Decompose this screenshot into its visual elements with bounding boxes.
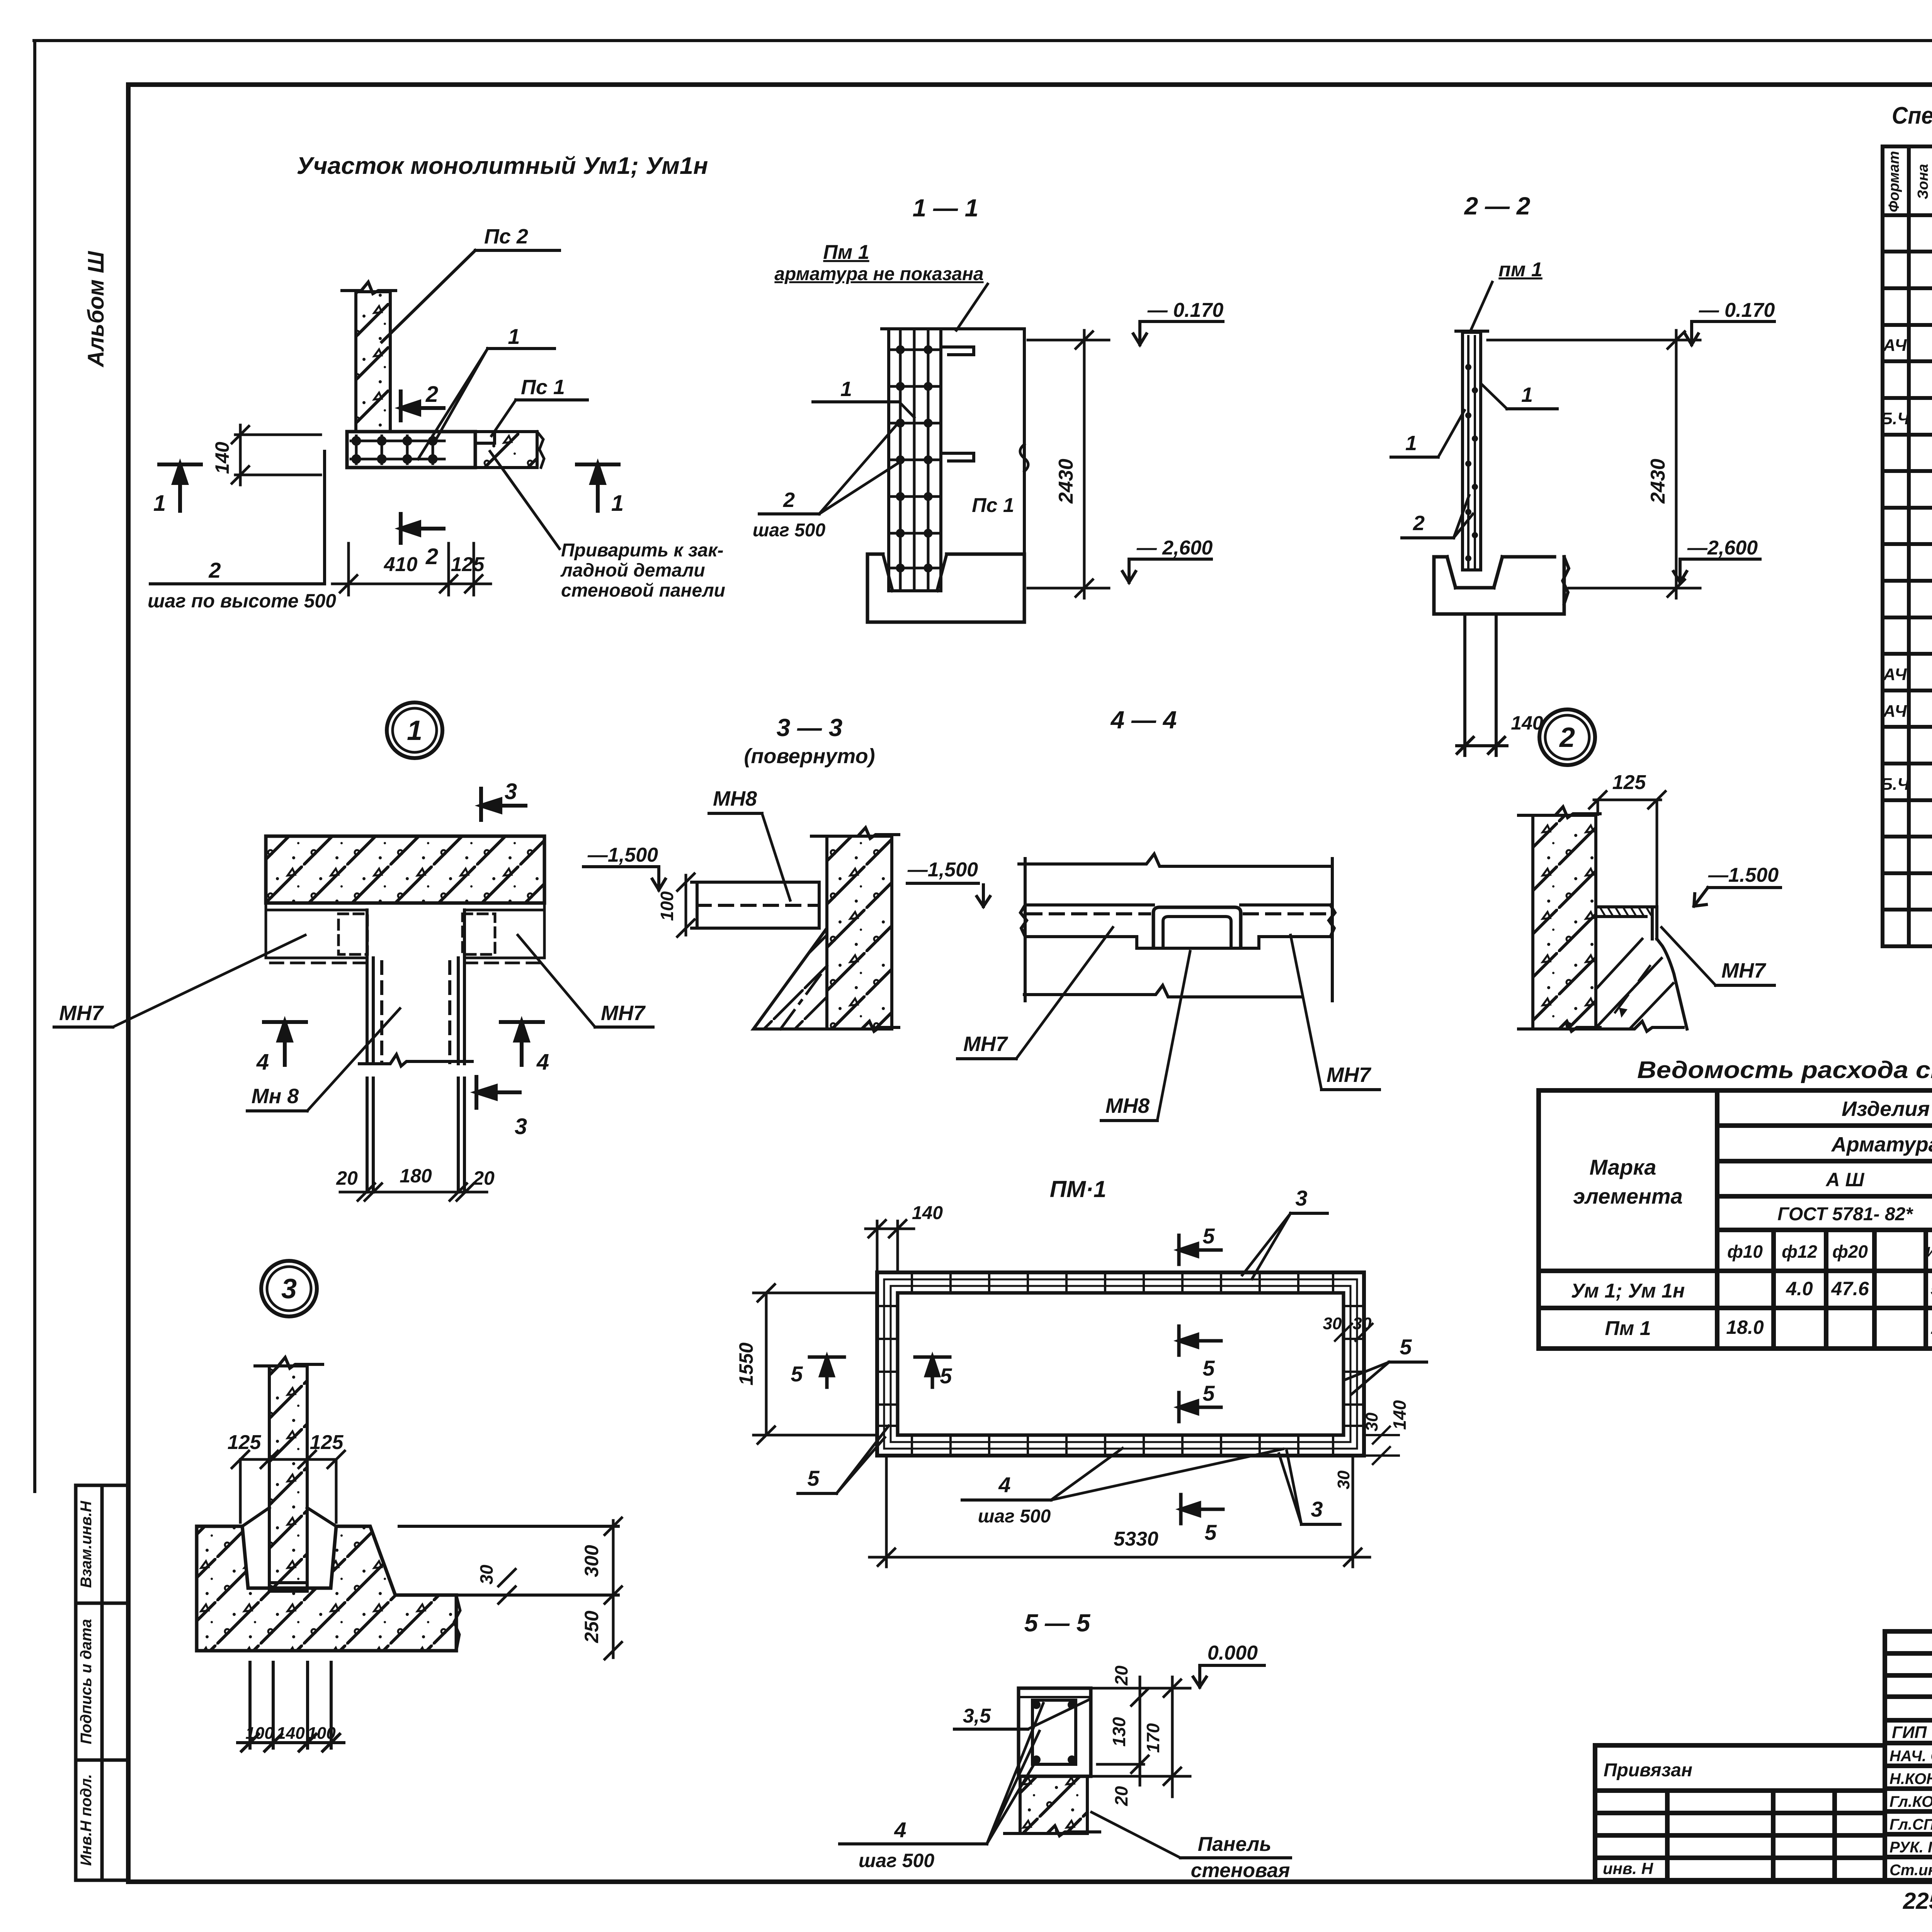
svg-text:1: 1 xyxy=(153,491,166,516)
svg-text:Ум 1; Ум 1н: Ум 1; Ум 1н xyxy=(1571,1280,1685,1302)
svg-text:Б.Ч: Б.Ч xyxy=(1881,775,1910,794)
column 1-1 xyxy=(889,329,941,591)
svg-text:4: 4 xyxy=(536,1049,549,1075)
svg-text:5: 5 xyxy=(1202,1356,1215,1380)
svg-text:20: 20 xyxy=(1111,1665,1131,1686)
section mark 3 lower n1 xyxy=(476,1077,520,1108)
svg-text:—2,600: —2,600 xyxy=(1687,537,1758,559)
section mark 1 right xyxy=(577,464,619,511)
footing 2-2 xyxy=(1434,557,1564,614)
band rebar ties xyxy=(353,436,436,464)
svg-text:стеновой панели: стеновой панели xyxy=(561,580,725,601)
svg-text:2430: 2430 xyxy=(1647,459,1669,504)
svg-text:шаг 500: шаг 500 xyxy=(978,1506,1051,1527)
band s44 xyxy=(1020,905,1335,937)
dim 5330 pm1 xyxy=(869,1459,1370,1567)
svg-text:300: 300 xyxy=(581,1545,602,1577)
plan PM1 cage lines xyxy=(884,1279,1357,1449)
wall bottom break n2 xyxy=(1519,1021,1600,1031)
svg-text:20: 20 xyxy=(1111,1786,1131,1806)
node 2 circle xyxy=(1539,709,1595,765)
spec table grid xyxy=(1883,146,1932,946)
svg-text:2 — 2: 2 — 2 xyxy=(1464,192,1531,220)
weld note leaders xyxy=(490,451,560,549)
svg-text:Изделия арматурные: Изделия арматурные xyxy=(1842,1097,1932,1121)
svg-text:Гл.КОНСТ.: Гл.КОНСТ. xyxy=(1889,1793,1932,1810)
svg-text:4: 4 xyxy=(894,1818,906,1842)
legs below 2-2 xyxy=(1457,614,1507,755)
svg-text:стеновая: стеновая xyxy=(1191,1859,1290,1882)
foundation n2 xyxy=(1596,917,1687,1029)
svg-text:125: 125 xyxy=(451,553,485,576)
svg-text:пм 1: пм 1 xyxy=(1498,259,1543,281)
svg-text:элемента: элемента xyxy=(1573,1184,1682,1208)
right dim chain n3 xyxy=(605,1518,622,1659)
svg-text:51.6: 51.6 xyxy=(1930,1278,1932,1299)
svg-text:— 2,600: — 2,600 xyxy=(1136,537,1213,559)
svg-text:3: 3 xyxy=(1295,1186,1307,1210)
svg-text:2430: 2430 xyxy=(1055,459,1077,504)
svg-text:130: 130 xyxy=(1109,1717,1129,1747)
svg-text:2: 2 xyxy=(783,488,795,512)
svg-text:АЧ: АЧ xyxy=(1883,665,1907,684)
svg-text:инв. Н: инв. Н xyxy=(1603,1859,1654,1878)
svg-text:5: 5 xyxy=(940,1364,952,1388)
node 1 circle xyxy=(387,702,442,758)
svg-text:шаг 500: шаг 500 xyxy=(753,520,826,541)
wall hatched s33 xyxy=(827,836,892,1029)
channel legs lower n1 xyxy=(367,1078,464,1192)
svg-text:Инв.Н подл.: Инв.Н подл. xyxy=(78,1774,95,1866)
svg-text:20: 20 xyxy=(336,1167,358,1189)
panel edge wave xyxy=(1020,444,1028,471)
svg-text:МН7: МН7 xyxy=(1721,959,1767,982)
svg-text:30: 30 xyxy=(1362,1412,1381,1431)
side bars s44 xyxy=(1024,859,1027,1001)
foundation hatch lines n2 xyxy=(1596,939,1673,1028)
svg-text:Гл.СПЕЧ.: Гл.СПЕЧ. xyxy=(1889,1816,1932,1833)
section mark 2 upper xyxy=(401,391,444,420)
svg-text:ГИП: ГИП xyxy=(1892,1723,1927,1742)
svg-text:3: 3 xyxy=(1311,1497,1323,1521)
svg-text:4 — 4: 4 — 4 xyxy=(1110,706,1177,734)
channel horizontal s33 xyxy=(692,882,819,928)
svg-text:Зона: Зона xyxy=(1915,164,1931,199)
panel Ps1 hatched right xyxy=(475,432,537,468)
section mark 3 upper n1 xyxy=(481,789,526,820)
svg-text:Участок монолитный Ум1; Ум1н: Участок монолитный Ум1; Ум1н xyxy=(297,153,708,179)
svg-text:РУК. ГР.: РУК. ГР. xyxy=(1889,1839,1932,1856)
base plate s44 xyxy=(1137,937,1259,948)
plan PM1 outer rect xyxy=(877,1272,1364,1456)
svg-text:170: 170 xyxy=(1143,1723,1163,1753)
stirrup s55 xyxy=(1032,1700,1076,1764)
top line s44 xyxy=(1019,854,1330,866)
column top cap xyxy=(882,327,947,330)
dims 410 125 xyxy=(332,543,491,595)
foundation dashdot n2 xyxy=(1615,966,1650,1012)
dim 20 180 20 n1 xyxy=(340,1184,487,1201)
svg-text:Арматура класса: Арматура класса xyxy=(1831,1133,1932,1156)
anchor hook lower xyxy=(941,453,974,461)
svg-text:ф10: ф10 xyxy=(1727,1242,1763,1262)
svg-text:5: 5 xyxy=(1202,1381,1215,1405)
dim 140 vertical xyxy=(232,425,321,485)
svg-text:Пс 1: Пс 1 xyxy=(972,494,1014,517)
hatched base s55 xyxy=(1020,1776,1087,1833)
MN7 angle n2 xyxy=(1596,907,1657,939)
column top break n3 xyxy=(255,1357,323,1368)
svg-text:1: 1 xyxy=(508,324,520,349)
slope dashdot s33 xyxy=(781,966,827,1029)
wall top line s33 xyxy=(811,828,899,838)
dim 140 top left pm1 xyxy=(866,1220,914,1269)
wall hatched n2 xyxy=(1533,815,1596,1029)
svg-text:180: 180 xyxy=(400,1165,432,1187)
svg-text:АЧ: АЧ xyxy=(1883,702,1907,721)
plan PM1 ties right xyxy=(1346,1306,1361,1426)
svg-text:5: 5 xyxy=(1400,1335,1412,1359)
svg-text:1: 1 xyxy=(611,491,624,516)
svg-text:3: 3 xyxy=(515,1114,527,1139)
svg-text:Мн 8: Мн 8 xyxy=(252,1085,299,1108)
svg-text:100: 100 xyxy=(657,891,677,921)
pit line right n3 xyxy=(456,1594,618,1597)
svg-text:Пм 1: Пм 1 xyxy=(1605,1317,1651,1340)
base bottom break s55 xyxy=(1005,1826,1100,1836)
svg-text:2: 2 xyxy=(208,558,221,582)
svg-text:МН8: МН8 xyxy=(1105,1094,1150,1117)
dim 100 s33 xyxy=(677,874,694,937)
beam top screed line s55 xyxy=(1019,1696,1091,1698)
svg-text:4: 4 xyxy=(998,1473,1010,1497)
svg-text:125: 125 xyxy=(310,1431,344,1454)
column n3 xyxy=(269,1366,307,1591)
wall bottom line s33 xyxy=(811,1021,899,1031)
svg-text:140: 140 xyxy=(912,1203,943,1223)
band rebar bars xyxy=(351,440,444,442)
svg-text:шаг 500: шаг 500 xyxy=(859,1850,934,1871)
svg-text:140: 140 xyxy=(211,442,233,474)
svg-text:140: 140 xyxy=(1389,1400,1410,1430)
svg-text:5: 5 xyxy=(807,1466,820,1490)
dim 2430 s22 xyxy=(1488,330,1700,598)
svg-text:Панель: Панель xyxy=(1198,1833,1272,1855)
svg-text:1: 1 xyxy=(407,715,422,746)
svg-text:— 0.170: — 0.170 xyxy=(1147,299,1224,321)
svg-text:18.0: 18.0 xyxy=(1726,1316,1764,1338)
svg-text:5: 5 xyxy=(1204,1520,1217,1544)
section mark 2 lower xyxy=(401,514,444,543)
svg-text:410: 410 xyxy=(384,553,418,576)
dim 2430 section 1-1 xyxy=(1028,330,1109,598)
panel outline right xyxy=(947,329,1024,554)
svg-text:Марка: Марка xyxy=(1590,1155,1656,1179)
svg-text:Ведомость расхода стали на эле: Ведомость расхода стали на элемент, кг xyxy=(1637,1057,1932,1083)
svg-text:4: 4 xyxy=(256,1049,269,1075)
section mark 4 right n1 xyxy=(501,1022,543,1065)
svg-text:Ст.инж-: Ст.инж- xyxy=(1889,1862,1932,1879)
svg-text:125: 125 xyxy=(228,1431,262,1454)
channel section s44 xyxy=(1153,907,1241,946)
svg-text:1 — 1: 1 — 1 xyxy=(913,194,979,222)
svg-text:Формат: Формат xyxy=(1886,151,1902,213)
svg-text:47.6: 47.6 xyxy=(1831,1278,1869,1299)
svg-text:—1,500: —1,500 xyxy=(587,844,658,866)
svg-text:2: 2 xyxy=(1413,512,1425,535)
svg-text:ПМ·1: ПМ·1 xyxy=(1050,1176,1106,1202)
svg-text:Подпись и дата: Подпись и дата xyxy=(78,1619,95,1744)
svg-text:Приварить к зак-: Приварить к зак- xyxy=(561,540,724,561)
svg-text:ф20: ф20 xyxy=(1832,1242,1868,1262)
wall top break n2 xyxy=(1519,807,1600,818)
svg-text:Пс 1: Пс 1 xyxy=(521,376,565,399)
svg-text:5: 5 xyxy=(791,1362,803,1386)
section mark 5 mid pm1 xyxy=(1179,1326,1221,1355)
plan PM1 ties left xyxy=(880,1306,895,1426)
svg-text:140: 140 xyxy=(276,1724,305,1743)
svg-text:— 0.170: — 0.170 xyxy=(1699,299,1775,321)
svg-text:Взам.инв.Н: Взам.инв.Н xyxy=(78,1500,95,1588)
plan PM1 ties top xyxy=(912,1275,1333,1291)
svg-text:3 — 3: 3 — 3 xyxy=(777,714,843,742)
svg-text:30: 30 xyxy=(1353,1314,1372,1333)
dim 125 n2 xyxy=(1589,791,1665,906)
outer trim border left xyxy=(33,41,36,1492)
wall panel top break xyxy=(342,282,396,294)
section mark 5 inner left pm1 xyxy=(915,1357,950,1387)
svg-text:—1.500: —1.500 xyxy=(1708,864,1779,886)
svg-text:5 — 5: 5 — 5 xyxy=(1024,1609,1091,1637)
thin column 2-2 xyxy=(1463,332,1481,570)
svg-text:Привязан: Привязан xyxy=(1604,1760,1692,1781)
dims 125 125 n3 xyxy=(232,1451,345,1522)
svg-text:(повернуто): (повернуто) xyxy=(744,745,875,768)
svg-text:МН8: МН8 xyxy=(713,787,757,810)
svg-text:5330: 5330 xyxy=(1114,1528,1158,1550)
footing 1-1 xyxy=(867,554,1024,622)
section mark 4 left n1 xyxy=(264,1022,306,1065)
column cap 2-2 xyxy=(1456,330,1488,333)
svg-text:МН7: МН7 xyxy=(963,1032,1009,1056)
svg-text:22532-01 22: 22532-01 22 xyxy=(1903,1888,1932,1914)
svg-text:НАЧ. ОТД.: НАЧ. ОТД. xyxy=(1889,1748,1932,1765)
plan PM1 inner rect xyxy=(898,1293,1344,1435)
plan PM1 ties bottom xyxy=(912,1437,1333,1453)
svg-text:Спецификация участков монолитн: Спецификация участков монолитных Ум1, Ум… xyxy=(1892,102,1932,129)
outer trim border top xyxy=(34,39,1932,42)
svg-text:ГОСТ 5781- 82*: ГОСТ 5781- 82* xyxy=(1777,1204,1913,1225)
svg-text:1: 1 xyxy=(1405,432,1417,455)
beam section s55 xyxy=(1019,1688,1091,1776)
svg-text:Альбом Ш: Альбом Ш xyxy=(83,251,109,368)
svg-text:Пм 1: Пм 1 xyxy=(823,241,869,264)
svg-text:А Ш: А Ш xyxy=(1825,1169,1865,1190)
svg-text:5: 5 xyxy=(1202,1224,1215,1248)
cup chamfers n3 xyxy=(242,1508,336,1583)
titleblock left grid xyxy=(1595,1745,1885,1880)
footing right break n3 xyxy=(454,1595,460,1651)
monolithic band xyxy=(347,432,475,468)
band below slab n1 xyxy=(266,903,544,963)
svg-text:ф12: ф12 xyxy=(1782,1242,1817,1262)
svg-text:1: 1 xyxy=(1521,383,1533,406)
right dims s55 xyxy=(1094,1677,1190,1797)
bottom legs n3 xyxy=(238,1662,344,1751)
section mark 5 top pm1 xyxy=(1179,1235,1221,1264)
left stamp column xyxy=(76,1485,128,1880)
stirrup corner bars s55 xyxy=(1032,1701,1076,1764)
svg-text:4.0: 4.0 xyxy=(1786,1278,1813,1299)
section mark 5 lower pm1 xyxy=(1179,1393,1221,1422)
section mark 5 left outside pm1 xyxy=(810,1357,844,1387)
anchor hook upper xyxy=(941,347,974,355)
svg-text:3: 3 xyxy=(505,779,517,804)
dim 1550 pm1 xyxy=(753,1284,877,1444)
node 3 circle xyxy=(261,1261,317,1316)
slab hatched n1 xyxy=(266,836,544,903)
foundation slope s33 xyxy=(753,928,827,1029)
steel table grid xyxy=(1539,1090,1932,1349)
svg-text:30: 30 xyxy=(1323,1314,1342,1333)
svg-text:3,5: 3,5 xyxy=(963,1705,991,1727)
titleblock center grid xyxy=(1885,1631,1932,1880)
svg-text:МН7: МН7 xyxy=(59,1002,104,1025)
bottom line s44 xyxy=(1024,985,1301,997)
svg-text:Пс 2: Пс 2 xyxy=(484,225,528,248)
svg-text:3: 3 xyxy=(281,1274,297,1304)
svg-text:шаг по высоте 500: шаг по высоте 500 xyxy=(148,590,336,612)
wall panel Ps2 hatched xyxy=(356,292,390,432)
svg-text:арматура не показана: арматура не показана xyxy=(774,264,983,284)
channel vertical n1 xyxy=(359,910,472,1066)
angle weld hatch n2 xyxy=(1600,907,1651,915)
svg-text:—1,500: —1,500 xyxy=(907,859,978,881)
svg-text:МН7: МН7 xyxy=(1327,1063,1372,1087)
section mark 1 left xyxy=(159,464,201,511)
section mark 5 bottom pm1 xyxy=(1181,1495,1223,1524)
svg-text:20: 20 xyxy=(473,1167,495,1189)
svg-text:2: 2 xyxy=(425,544,438,569)
svg-text:2: 2 xyxy=(1559,722,1575,753)
svg-text:100: 100 xyxy=(245,1724,274,1743)
footing n3 xyxy=(197,1526,456,1651)
svg-text:30: 30 xyxy=(1334,1470,1353,1489)
svg-text:2: 2 xyxy=(425,382,438,407)
panel break right xyxy=(537,432,544,468)
ground line right n3 xyxy=(399,1525,618,1528)
column rebar verticals xyxy=(900,332,928,589)
column rebar dots 2-2 xyxy=(1465,364,1478,561)
svg-text:ладной детали: ладной детали xyxy=(560,560,705,581)
svg-text:0.000: 0.000 xyxy=(1207,1642,1258,1664)
svg-text:30: 30 xyxy=(476,1565,497,1585)
svg-text:250: 250 xyxy=(581,1611,602,1643)
svg-text:18.0: 18.0 xyxy=(1930,1316,1932,1338)
column ties xyxy=(891,347,939,571)
svg-text:125: 125 xyxy=(1612,771,1646,794)
svg-text:МН7: МН7 xyxy=(601,1002,646,1025)
svg-text:100: 100 xyxy=(307,1724,336,1743)
svg-text:1550: 1550 xyxy=(735,1342,757,1385)
svg-text:АЧ: АЧ xyxy=(1883,336,1907,355)
svg-text:1: 1 xyxy=(840,378,852,401)
svg-text:Б.Ч: Б.Ч xyxy=(1881,409,1910,428)
leader 2 shag po vysote 500 xyxy=(150,451,325,584)
svg-text:Итого: Итого xyxy=(1926,1244,1932,1260)
svg-text:Н.КОНТР.: Н.КОНТР. xyxy=(1889,1770,1932,1787)
